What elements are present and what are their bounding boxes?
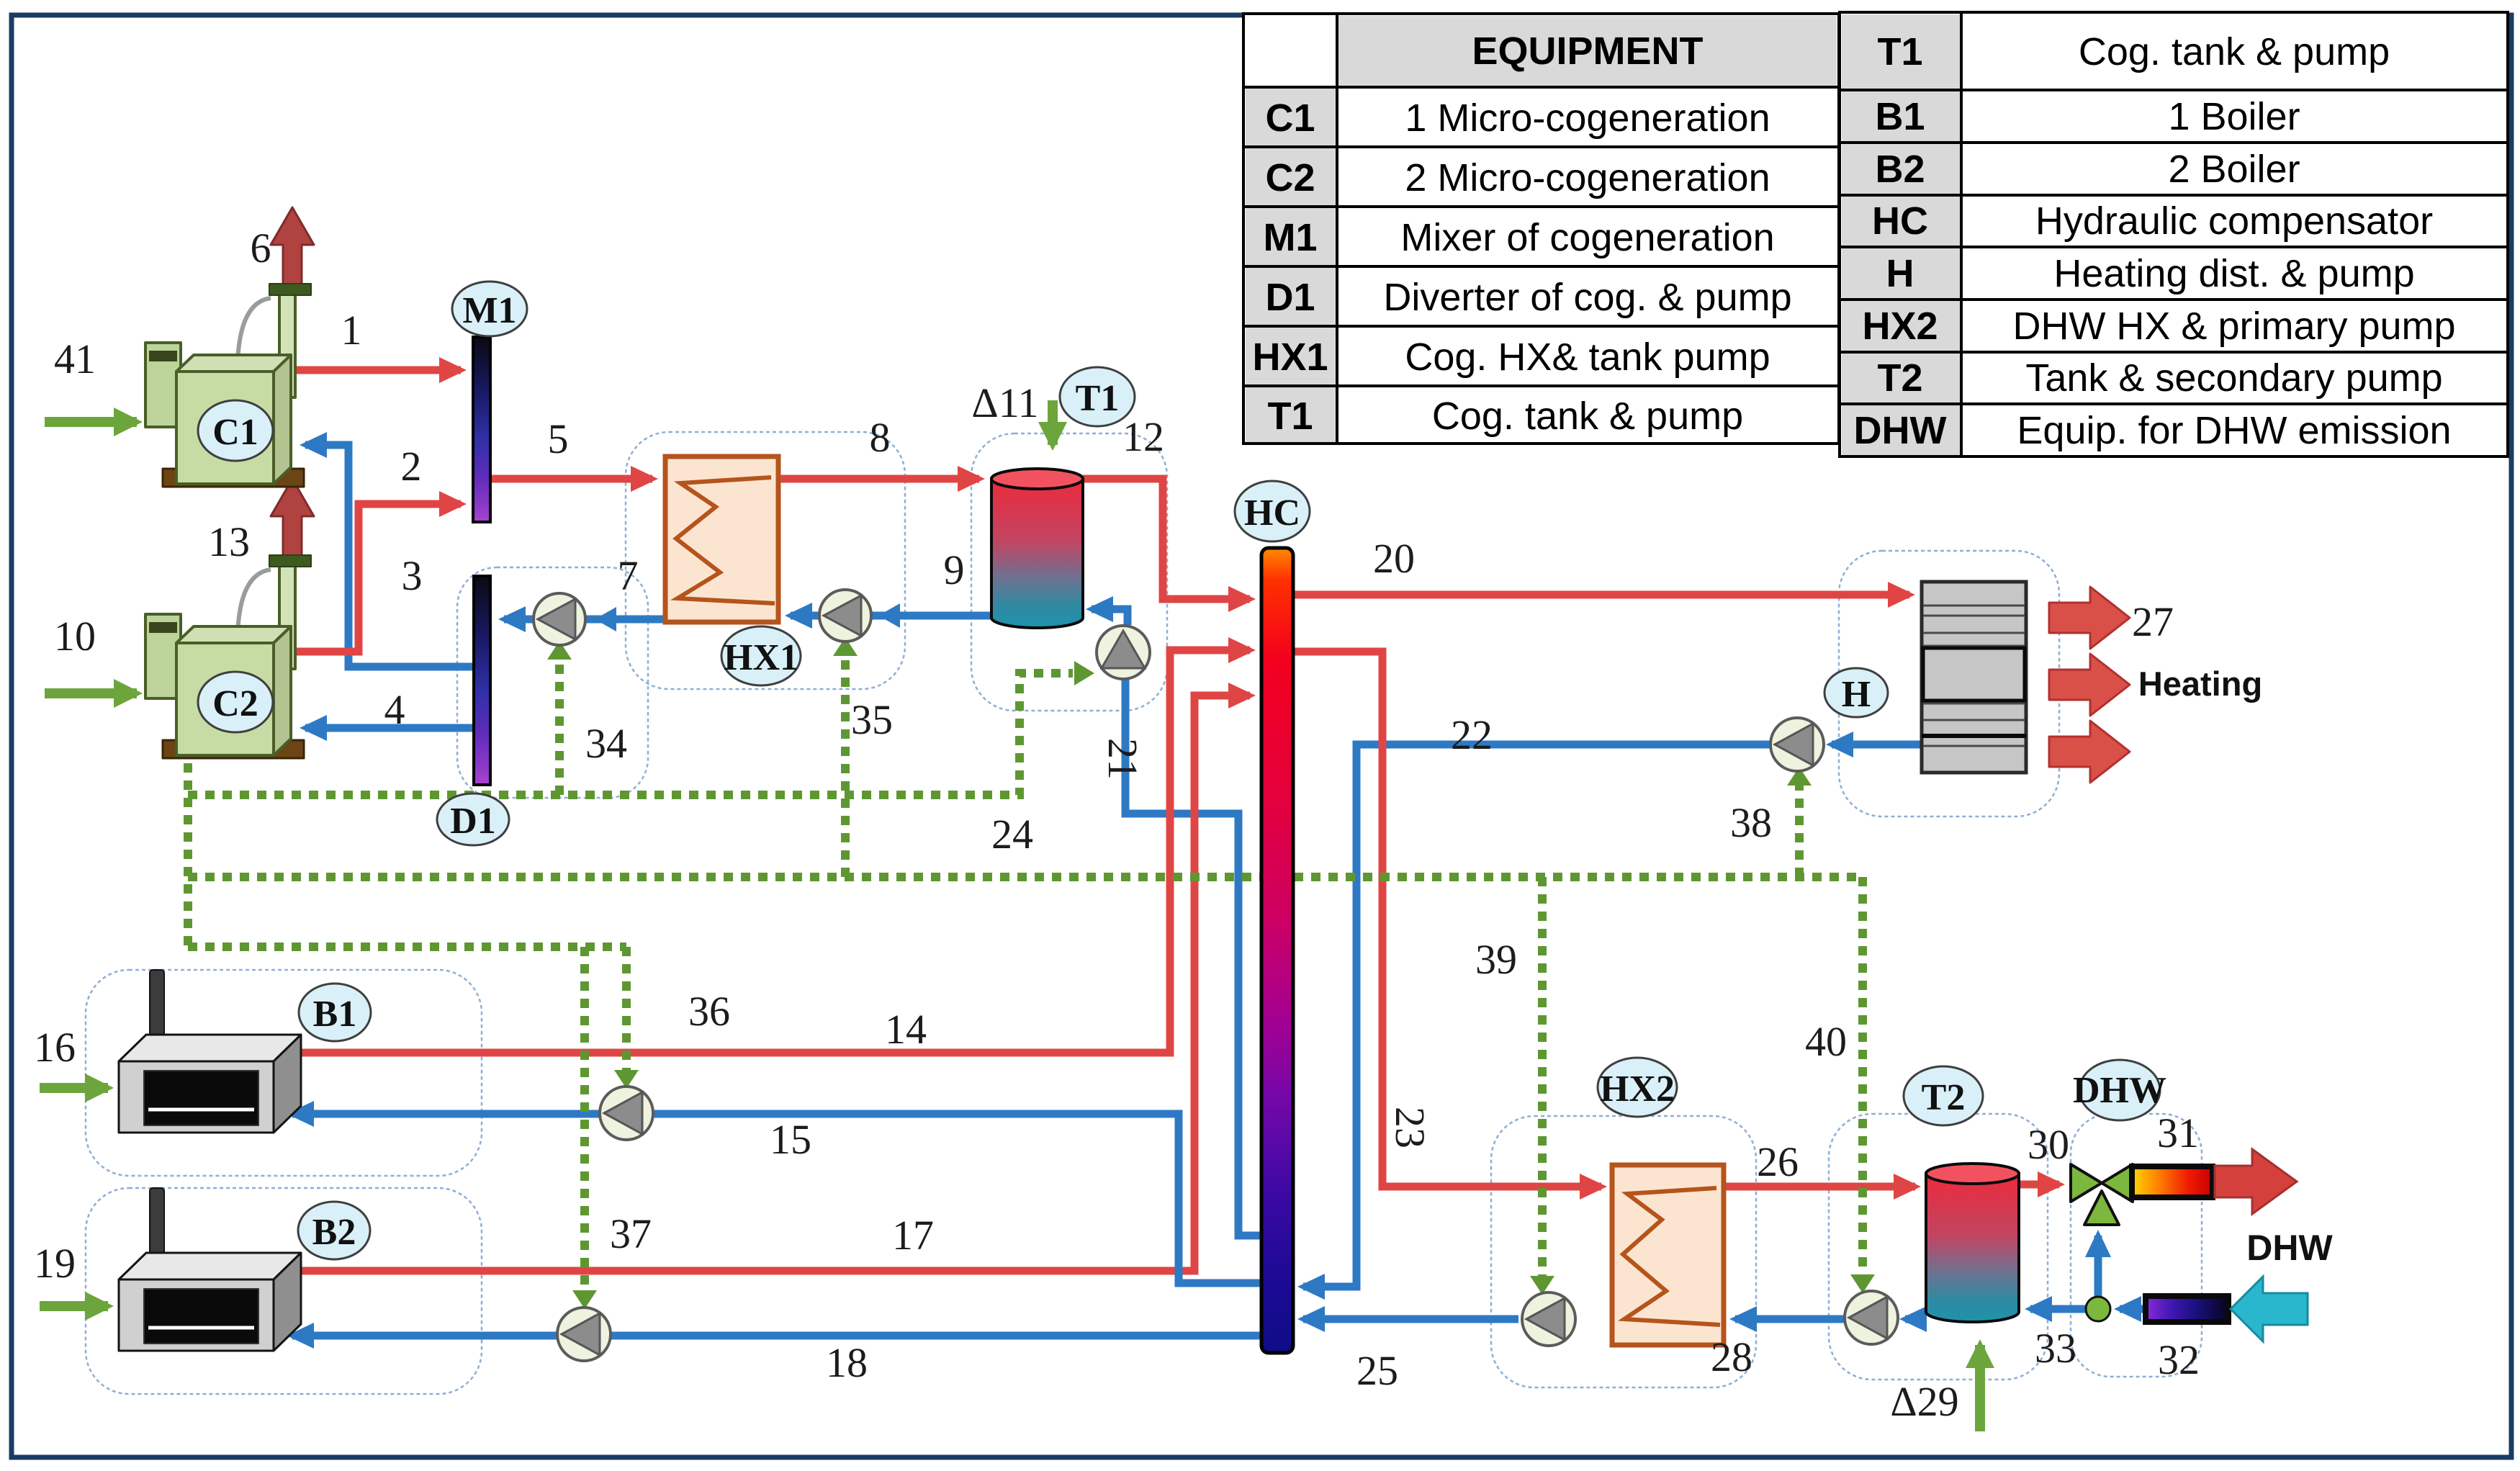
svg-text:28: 28 xyxy=(1711,1333,1752,1380)
svg-text:HC: HC xyxy=(1244,492,1300,534)
control wire 34 to D1 pump xyxy=(555,659,564,795)
chimney C2 xyxy=(279,561,295,669)
chimney cap C2 xyxy=(269,555,311,567)
svg-text:24: 24 xyxy=(991,811,1033,858)
pump T2 (40) xyxy=(1845,1291,1898,1344)
green feed arrow 10 xyxy=(45,688,137,698)
body C2 xyxy=(176,626,291,643)
cable C1 xyxy=(238,298,271,363)
svg-text:EQUIPMENT: EQUIPMENT xyxy=(1472,30,1703,73)
hydraulic compensator HC bar xyxy=(1261,548,1293,1353)
svg-text:32: 32 xyxy=(2158,1336,2200,1383)
svg-text:7: 7 xyxy=(618,552,639,599)
svg-text:21: 21 xyxy=(1099,738,1146,780)
chimney C1 xyxy=(279,289,295,397)
svg-text:40: 40 xyxy=(1805,1018,1847,1065)
svg-text:DHW HX & primary pump: DHW HX & primary pump xyxy=(2012,305,2455,348)
side box C2 xyxy=(145,614,181,698)
label ellipse D1 xyxy=(437,793,509,845)
group outline DHW xyxy=(2071,1114,2202,1377)
group outline H xyxy=(1839,551,2059,817)
pump HX2 (39) xyxy=(1522,1292,1575,1346)
svg-text:Heating dist. & pump: Heating dist. & pump xyxy=(2053,252,2414,295)
svg-text:M1: M1 xyxy=(1263,216,1317,259)
cable C2 xyxy=(238,570,271,634)
svg-text:DHW: DHW xyxy=(2073,1070,2166,1111)
tank T1 xyxy=(991,479,1083,628)
svg-text:12: 12 xyxy=(1122,413,1164,460)
svg-text:T2: T2 xyxy=(1922,1077,1966,1118)
svg-text:B1: B1 xyxy=(1875,95,1925,138)
micro-cogeneration unit C2 xyxy=(145,479,314,758)
red pipe 20 xyxy=(1294,591,1909,599)
blue pipe 18 xyxy=(292,1332,1263,1340)
tank T2 xyxy=(1926,1174,2019,1322)
side box C1 xyxy=(145,343,181,427)
group outline D1 xyxy=(86,432,2202,1394)
svg-text:D1: D1 xyxy=(1265,276,1315,319)
red pipe 17 xyxy=(288,696,1250,1271)
node 33 xyxy=(2086,1297,2110,1321)
blue pipe 22 xyxy=(1832,741,1921,749)
pump T1 (24) xyxy=(1097,626,1150,679)
group outline B2 xyxy=(86,1188,482,1394)
pump H (38) xyxy=(1770,718,1824,771)
svg-text:T1: T1 xyxy=(1267,395,1313,438)
label ellipse M1 xyxy=(452,282,527,336)
svg-text:Tank & secondary pump: Tank & secondary pump xyxy=(2025,356,2442,400)
label ellipse B2 xyxy=(298,1202,370,1259)
svg-text:C2: C2 xyxy=(212,683,258,724)
label ellipse B1 xyxy=(299,984,371,1041)
pump D1 (34) xyxy=(534,593,585,645)
red pipe 23 xyxy=(1294,652,1601,1187)
svg-text:35: 35 xyxy=(851,696,893,743)
svg-text:1 Micro-cogeneration: 1 Micro-cogeneration xyxy=(1405,96,1770,140)
control wire to boiler pumps xyxy=(188,943,626,951)
svg-text:16: 16 xyxy=(34,1024,76,1071)
svg-text:DHW: DHW xyxy=(1854,409,1947,452)
svg-text:Δ11: Δ11 xyxy=(971,379,1038,426)
group outline HX1 xyxy=(626,432,905,689)
label ellipse DHW xyxy=(2073,1060,2166,1120)
blue pipe 4 xyxy=(305,724,474,732)
blue pipe 15 xyxy=(292,1114,1263,1336)
svg-text:33: 33 xyxy=(2035,1325,2076,1372)
blue pipe 25 xyxy=(1303,1315,1518,1323)
boiler B2 xyxy=(119,1188,301,1351)
heating block arrows 27 xyxy=(2049,587,2130,783)
svg-text:10: 10 xyxy=(54,613,96,660)
svg-text:31: 31 xyxy=(2157,1110,2199,1156)
red pipe 8 xyxy=(778,475,979,483)
label ellipse T2 xyxy=(1904,1066,1983,1125)
control wire long bus xyxy=(188,873,1863,881)
base C2 xyxy=(163,740,304,758)
red pipe 26 xyxy=(1724,1183,1915,1191)
svg-text:2 Boiler: 2 Boiler xyxy=(2168,148,2300,191)
control wire 24 to T1 pump xyxy=(188,673,1073,795)
blue pipe node up to valve xyxy=(2094,1236,2102,1297)
svg-text:37: 37 xyxy=(610,1210,652,1257)
svg-text:18: 18 xyxy=(826,1339,868,1386)
svg-text:B2: B2 xyxy=(312,1212,356,1253)
svg-text:26: 26 xyxy=(1757,1138,1799,1185)
svg-text:DHW: DHW xyxy=(2246,1228,2333,1268)
flue arrow 13 xyxy=(271,479,314,557)
svg-text:HC: HC xyxy=(1872,199,1928,243)
DHW inlet cyan arrow 32 xyxy=(2231,1277,2308,1341)
red pipe 12 xyxy=(1083,479,1250,599)
control wire 35 to HX1 pump xyxy=(841,655,850,877)
label ellipse C1 xyxy=(198,400,273,461)
pump B2 (37) xyxy=(557,1308,611,1361)
svg-text:23: 23 xyxy=(1387,1107,1434,1148)
extra blue arrowheads xyxy=(595,603,900,631)
svg-text:13: 13 xyxy=(208,518,250,565)
svg-text:D1: D1 xyxy=(450,801,496,842)
svg-text:Diverter of cog. & pump: Diverter of cog. & pump xyxy=(1383,276,1791,319)
DHW 3-way valve xyxy=(2071,1164,2133,1225)
blue pipe 3 xyxy=(305,445,2146,1319)
svg-text:HX1: HX1 xyxy=(1252,336,1328,379)
svg-text:5: 5 xyxy=(548,415,569,462)
svg-text:H: H xyxy=(1842,674,1871,715)
svg-text:Mixer of cogeneration: Mixer of cogeneration xyxy=(1400,216,1774,259)
svg-text:Cog. tank & pump: Cog. tank & pump xyxy=(1432,395,1743,438)
svg-text:14: 14 xyxy=(885,1006,927,1053)
green dotted control lines xyxy=(188,655,1863,1293)
control wire 36 to B1 pump xyxy=(622,947,631,1073)
label ellipse HX2 xyxy=(1598,1058,1677,1117)
svg-text:Equip. for DHW emission: Equip. for DHW emission xyxy=(2017,409,2451,452)
svg-text:H: H xyxy=(1886,252,1914,295)
svg-text:27: 27 xyxy=(2132,598,2174,645)
svg-text:2 Micro-cogeneration: 2 Micro-cogeneration xyxy=(1405,156,1770,199)
svg-text:19: 19 xyxy=(34,1240,76,1287)
group outline B1 xyxy=(86,970,482,1176)
green control arrowheads xyxy=(547,637,1875,1309)
node numbers xyxy=(34,225,2200,1425)
svg-text:6: 6 xyxy=(251,225,271,271)
svg-text:Cog. tank & pump: Cog. tank & pump xyxy=(2079,30,2390,73)
svg-text:8: 8 xyxy=(870,414,891,461)
group outline T2 xyxy=(1829,1114,2048,1380)
blue pipe 33 node to tank xyxy=(2030,1305,2086,1313)
svg-text:34: 34 xyxy=(585,720,627,767)
svg-text:Cog. HX& tank pump: Cog. HX& tank pump xyxy=(1405,336,1770,379)
pump HX1 (35) xyxy=(819,590,871,642)
svg-text:Heating: Heating xyxy=(2138,665,2262,703)
blue pipe T2 tank to pump xyxy=(1905,1315,1926,1323)
red pipe 14 xyxy=(288,650,1250,1053)
green feed arrow 19 xyxy=(40,1301,108,1311)
svg-text:C1: C1 xyxy=(1265,96,1315,140)
svg-text:HX2: HX2 xyxy=(1600,1069,1675,1110)
green feed arrow 16 xyxy=(40,1083,108,1093)
pump B1 (36) xyxy=(600,1087,653,1140)
svg-text:30: 30 xyxy=(2028,1121,2069,1168)
svg-text:41: 41 xyxy=(54,336,96,382)
svg-text:Hydraulic compensator: Hydraulic compensator xyxy=(2035,199,2433,243)
control wire 40 to T2 pump xyxy=(1858,877,1867,1279)
base C1 xyxy=(163,469,304,487)
group outline T1 xyxy=(971,433,1167,711)
svg-text:C2: C2 xyxy=(1265,156,1315,199)
green arrow D29 into T2 xyxy=(1975,1345,1985,1431)
svg-text:39: 39 xyxy=(1475,936,1517,983)
red pipe 30 xyxy=(2019,1181,2059,1189)
svg-text:T2: T2 xyxy=(1877,356,1922,400)
legend table left xyxy=(1243,14,1839,444)
green feed arrow 41 xyxy=(40,400,1980,1431)
svg-text:2: 2 xyxy=(401,443,422,490)
svg-text:M1: M1 xyxy=(462,290,516,331)
control wire from C2 down xyxy=(184,763,192,947)
DHW inlet gradient bar 32 xyxy=(2146,1296,2228,1322)
svg-text:3: 3 xyxy=(402,552,423,599)
boiler B1 xyxy=(119,970,301,1133)
DHW outlet block arrow 31 xyxy=(2215,1149,2297,1214)
svg-text:B2: B2 xyxy=(1875,148,1925,191)
svg-text:17: 17 xyxy=(892,1212,934,1259)
svg-text:B1: B1 xyxy=(313,994,357,1035)
svg-text:22: 22 xyxy=(1451,711,1493,758)
diverter D1 bar xyxy=(474,576,490,785)
svg-text:15: 15 xyxy=(770,1116,811,1163)
blue pipe 32 bar to node xyxy=(2120,1305,2146,1313)
chimney cap C1 xyxy=(269,284,311,295)
svg-text:C1: C1 xyxy=(212,412,258,453)
legend table right xyxy=(1840,12,2508,456)
DHW outlet gradient bar 31 xyxy=(2132,1166,2213,1197)
red pipe 5 xyxy=(490,475,652,483)
heating radiator H xyxy=(1922,582,2026,773)
svg-text:25: 25 xyxy=(1356,1347,1398,1394)
blue pipe 9 xyxy=(791,612,1083,620)
heat exchanger HX1 xyxy=(665,456,778,622)
svg-text:1: 1 xyxy=(341,307,362,354)
body C1 xyxy=(176,355,291,372)
svg-text:T1: T1 xyxy=(1076,378,1120,419)
svg-text:9: 9 xyxy=(944,546,965,593)
svg-text:1 Boiler: 1 Boiler xyxy=(2168,95,2300,138)
svg-text:36: 36 xyxy=(688,988,730,1035)
label ellipse T1 xyxy=(1060,367,1135,426)
svg-text:20: 20 xyxy=(1373,535,1415,582)
heat exchanger HX2 xyxy=(1612,1165,1724,1345)
control wire 37 to B2 pump xyxy=(580,947,589,1293)
red pipe 2 xyxy=(295,504,461,652)
mixer M1 bar xyxy=(473,337,490,522)
green arrow D11 into T1 xyxy=(1048,400,1058,445)
blue pipe 21 xyxy=(1125,675,1261,1236)
red pipe 1 xyxy=(288,370,2059,1271)
flue arrow 6 xyxy=(271,207,314,286)
control wire 39 to HX2 pump xyxy=(1538,877,1547,1280)
group outline HX2 xyxy=(1491,1116,1756,1387)
svg-text:HX1: HX1 xyxy=(724,637,798,678)
label ellipse C2 xyxy=(198,672,273,732)
control wire 38 to H pump xyxy=(1795,785,1804,877)
label ellipse H xyxy=(1824,668,1888,717)
blue pipe 7 xyxy=(504,616,665,624)
svg-text:HX2: HX2 xyxy=(1862,305,1938,348)
svg-text:4: 4 xyxy=(384,686,405,733)
svg-text:Δ29: Δ29 xyxy=(1890,1378,1958,1425)
micro-cogeneration unit C1 xyxy=(145,207,314,487)
label ellipse HX1 xyxy=(721,626,801,685)
svg-text:38: 38 xyxy=(1730,799,1772,846)
blue pipe 28 xyxy=(1735,1315,1847,1323)
svg-text:T1: T1 xyxy=(1877,30,1922,73)
label ellipse HC xyxy=(1235,481,1310,541)
